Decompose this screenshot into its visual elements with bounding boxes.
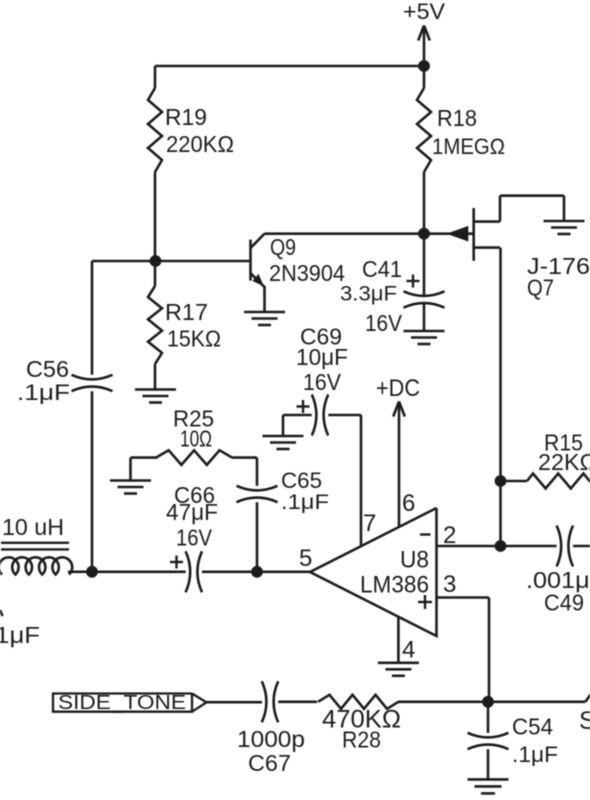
- resistor R25: [156, 450, 232, 465]
- wire R18 top lead: [423, 66, 426, 88]
- svg-text:1MEGΩ: 1MEGΩ: [432, 134, 505, 159]
- svg-text:2N3904: 2N3904: [269, 260, 345, 286]
- svg-text:R17: R17: [165, 299, 208, 325]
- svg-text:SP: SP: [579, 707, 590, 735]
- svg-text:16V: 16V: [303, 369, 342, 395]
- op-amp U8 plus: [418, 601, 432, 603]
- ground C41: [404, 330, 445, 333]
- wire R19 bottom lead: [154, 172, 157, 261]
- wire C67 to R28: [278, 700, 317, 703]
- wire node to opamp output: [257, 570, 310, 573]
- node top junction: [418, 60, 430, 72]
- ground C69: [263, 435, 304, 438]
- svg-text:.1μF: .1μF: [512, 742, 558, 767]
- svg-text:5: 5: [299, 545, 312, 572]
- capacitor C49: [557, 526, 562, 567]
- wire gate to Q7: [424, 232, 474, 235]
- svg-text:15KΩ: 15KΩ: [167, 326, 221, 352]
- wire C66 to node: [202, 570, 257, 573]
- wire pin2 right: [437, 545, 557, 548]
- transistor Q7 J-176 body: [472, 208, 475, 261]
- node pin2 junction: [495, 540, 507, 552]
- node C65 junction: [251, 566, 263, 578]
- wire R19 top lead: [154, 66, 157, 88]
- ground Q7 drain: [544, 220, 585, 223]
- ground C54: [468, 778, 509, 781]
- svg-text:.1μF: .1μF: [17, 380, 70, 405]
- op-amp U8 minus: [420, 533, 431, 535]
- wire C41 top lead: [423, 234, 426, 296]
- wire Q7 source down: [499, 248, 502, 546]
- wire R25 right lead: [232, 456, 257, 459]
- node inductor junction: [86, 566, 98, 578]
- resistor R15: [527, 474, 590, 489]
- wire C54 bottom lead: [487, 749, 490, 779]
- wire C69 left lead: [283, 414, 312, 417]
- ground U8 pin4: [378, 661, 419, 664]
- svg-text:.1μF: .1μF: [281, 491, 329, 514]
- svg-text:Q7: Q7: [527, 275, 554, 301]
- node R15 junction: [495, 475, 507, 487]
- transistor Q9 2N3904: [249, 240, 252, 281]
- wire C65 bottom lead: [256, 502, 259, 572]
- wire drain top rail: [500, 194, 564, 197]
- svg-text:C41: C41: [362, 256, 402, 282]
- wire C65 top lead: [256, 458, 259, 486]
- wire pin4 down: [397, 617, 400, 663]
- wire pin3 down: [488, 598, 491, 702]
- wire R17 top lead: [154, 261, 157, 286]
- svg-text:Q9: Q9: [270, 234, 296, 260]
- svg-text:3.3μF: 3.3μF: [340, 283, 397, 306]
- wire left vertical lower: [91, 391, 94, 572]
- capacitor C69 polarity +: [297, 405, 310, 407]
- capacitor C65: [237, 486, 278, 491]
- resistor R17: [148, 286, 162, 364]
- svg-text:47μF: 47μF: [166, 499, 218, 525]
- inductor L coils: [0, 557, 72, 574]
- node C54 junction: [482, 696, 494, 708]
- capacitor C54: [468, 733, 509, 738]
- wire node to SPKR: [488, 700, 585, 703]
- op-amp U8 LM386: [310, 508, 437, 636]
- svg-text:1000p: 1000p: [237, 726, 305, 752]
- node collector junction: [418, 228, 430, 240]
- wire R15 lead: [501, 480, 528, 483]
- wire C69 right lead: [328, 414, 361, 417]
- wire R18 bottom lead: [423, 172, 426, 234]
- net label SIDE_TONE: [53, 694, 192, 712]
- capacitor C56: [72, 375, 113, 380]
- svg-text:10Ω: 10Ω: [180, 426, 212, 452]
- capacitor C41 polarity +: [407, 280, 420, 282]
- capacitor C41: [404, 291, 445, 296]
- capacitor C67: [262, 681, 267, 722]
- svg-text:6: 6: [402, 490, 415, 517]
- capacitor C66: [186, 551, 191, 592]
- svg-text:R18: R18: [437, 105, 477, 131]
- wire C49 right: [573, 545, 590, 548]
- wire R28 to node: [398, 700, 488, 703]
- svg-text:C65: C65: [281, 468, 322, 493]
- node base junction: [150, 255, 162, 267]
- svg-text:+DC: +DC: [376, 375, 420, 402]
- svg-text:C56: C56: [26, 356, 69, 382]
- svg-text:.1μF: .1μF: [0, 622, 40, 648]
- svg-text:3: 3: [443, 571, 456, 598]
- svg-text:U8: U8: [400, 547, 429, 574]
- wire main to C66: [92, 570, 186, 573]
- transistor Q7 J-176 gate arrow: [447, 226, 469, 242]
- wire pin3 right: [437, 596, 490, 599]
- svg-text:R19: R19: [165, 104, 207, 130]
- svg-text:10μF: 10μF: [296, 344, 348, 370]
- svg-text:SIDE_TONE: SIDE_TONE: [58, 692, 186, 714]
- ground R25: [110, 479, 151, 482]
- svg-text:22KΩ: 22KΩ: [538, 449, 590, 475]
- wire C69 left down: [282, 415, 285, 436]
- svg-text:4: 4: [402, 637, 415, 664]
- power +DC arrow: [398, 403, 401, 528]
- svg-text:220KΩ: 220KΩ: [166, 131, 234, 157]
- wire inductor to junction: [68, 570, 92, 573]
- svg-text:LM386: LM386: [360, 572, 429, 599]
- svg-text:7: 7: [363, 510, 376, 537]
- svg-text:16V: 16V: [176, 525, 213, 551]
- wire drain ground lead: [563, 196, 566, 221]
- wire R17 bottom lead: [154, 364, 157, 390]
- capacitor C66 polarity +: [170, 561, 183, 563]
- svg-text:C67: C67: [248, 750, 291, 776]
- svg-text:C49: C49: [544, 590, 584, 616]
- wire Q9 collector: [265, 232, 425, 235]
- net label SPKR point: [585, 694, 590, 702]
- wire C54 top lead: [487, 702, 490, 733]
- wire junction left: [92, 260, 155, 263]
- label fragment C tick: [0, 610, 3, 616]
- wire label to C67: [207, 701, 263, 704]
- resistor R28: [318, 695, 399, 709]
- wire pin7 vertical: [360, 415, 363, 547]
- wire R25 left lead: [131, 456, 158, 459]
- svg-text:10 uH: 10 uH: [2, 514, 64, 540]
- wire base to Q9: [155, 260, 251, 263]
- svg-text:C54: C54: [512, 714, 553, 740]
- svg-text:R28: R28: [342, 727, 381, 753]
- resistor R19: [148, 88, 162, 172]
- svg-text:16V: 16V: [365, 310, 403, 336]
- wire top rail: [155, 65, 424, 68]
- wire R25 left down: [129, 458, 132, 481]
- resistor R18: [417, 88, 431, 172]
- power +5V arrow: [423, 27, 426, 66]
- ground Q9 emitter: [244, 311, 285, 314]
- inductor L core lines: [1, 542, 69, 544]
- wire Q7 drain up: [499, 196, 502, 222]
- svg-text:+5V: +5V: [403, 0, 445, 24]
- wire C41 bottom lead: [423, 303, 426, 331]
- capacitor C69: [312, 395, 317, 436]
- ground R17: [135, 388, 176, 391]
- wire left vertical upper: [91, 261, 94, 375]
